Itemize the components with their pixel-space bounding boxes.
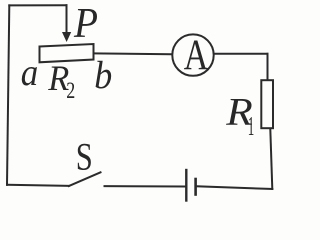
battery short plate (negative) (194, 179, 197, 195)
wire right-upper (R1 up to top corner) (267, 54, 269, 80)
svg-text:2: 2 (66, 78, 75, 104)
switch S blade (69, 172, 101, 186)
resistor R1 body (261, 80, 273, 128)
wire left side (7, 5, 9, 184)
svg-text:S: S (76, 135, 93, 179)
svg-text:P: P (73, 1, 98, 47)
battery long plate (positive) (185, 170, 187, 201)
rheostat R2 body (40, 44, 94, 62)
wire bottom-right (battery to corner) (197, 186, 273, 189)
svg-text:A: A (184, 32, 209, 79)
wire bottom-mid (switch to battery) (105, 185, 186, 187)
svg-text:a: a (21, 52, 39, 94)
slider P arrowhead (62, 32, 71, 42)
slider P arrow stem (66, 5, 68, 33)
wire top-right (corner to ammeter) (215, 53, 268, 55)
svg-text:1: 1 (248, 111, 255, 141)
wire bottom-left (corner to switch) (7, 185, 69, 186)
wire ammeter to rheostat (94, 52, 172, 55)
wire right-lower (corner up to R1) (270, 129, 272, 189)
ammeter A body circle (172, 34, 213, 75)
svg-text:b: b (94, 54, 112, 97)
wire top (top-left corner to slider branch) (9, 4, 66, 6)
